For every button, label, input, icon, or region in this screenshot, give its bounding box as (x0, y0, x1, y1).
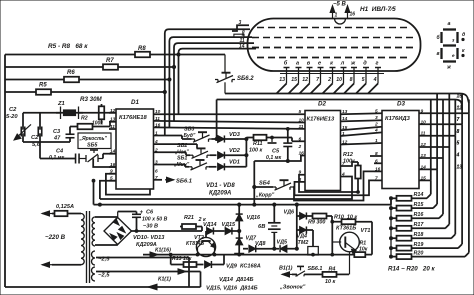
label heater winding 2 (98, 273, 110, 279)
svg-text:5: 5 (457, 141, 460, 147)
svg-text:R3 30М: R3 30М (80, 96, 103, 103)
wire D1 pin4 to SB2 T (197, 147, 201, 149)
resistor R1 10k (354, 241, 367, 258)
fuse FU1 0.125A (55, 204, 82, 216)
svg-text:1: 1 (335, 13, 338, 19)
label box Yarkost SB5 (78, 133, 111, 149)
wire R9 right (327, 216, 333, 222)
svg-text:SБ3: SБ3 (184, 127, 194, 133)
wire R12 top to D2 pin7 (341, 162, 359, 166)
wire D1 pin16 to D2 pin11 (154, 127, 306, 128)
tube left pin numbers (239, 20, 246, 50)
svg-text:е: е (318, 61, 321, 67)
diode VD2 (218, 148, 241, 159)
capacitor C3 47 (53, 127, 75, 143)
segment bus pin numbers (456, 94, 463, 171)
label heater winding 1 (98, 257, 110, 263)
svg-text:VД5: VД5 (277, 240, 288, 246)
switch SB5 contacts (79, 150, 103, 162)
IC D3 right pin numbers (421, 108, 427, 181)
svg-text:R2: R2 (81, 116, 88, 122)
svg-text:100 x 50 В: 100 x 50 В (142, 217, 168, 223)
label Z1 (57, 101, 65, 107)
wire R14-R20 left bus (390, 197, 397, 258)
wire riser tube pin 8 / R5 / D1 pin 1 (165, 29, 250, 135)
wire R11 to D2 pin6 (292, 138, 305, 142)
wire SB5 loop to D1 pin 16 (93, 159, 116, 168)
label D3 (397, 101, 405, 108)
wire D2 pin1 to D3 pin4 (341, 132, 383, 136)
svg-text:VД6: VД6 (284, 210, 295, 216)
svg-text:VД4: VД4 (297, 234, 308, 240)
tube bottom pins (284, 68, 382, 84)
tube segment letters (284, 60, 379, 67)
wire D1 pin4 row (154, 144, 202, 148)
wire D1 pin2 to SB2 (154, 152, 191, 155)
svg-text:КТ361Б: КТ361Б (336, 225, 356, 231)
svg-text:R15: R15 (414, 202, 425, 208)
svg-text:R5 - R8 68 к: R5 - R8 68 к (48, 43, 88, 50)
wire band upper (225, 94, 469, 104)
svg-text:R6: R6 (67, 70, 75, 76)
tube grid dashed line 4 (257, 57, 411, 59)
wire VD7 bottom bar (234, 253, 244, 255)
bridge rectifier VD10-VD13 (104, 218, 132, 245)
svg-text:−30 В: −30 В (143, 224, 158, 230)
svg-text:0,1 мк: 0,1 мк (49, 155, 64, 161)
wire SB6.2 riser to VD3 row (215, 100, 218, 141)
IC D1 right pin numbers (154, 109, 161, 181)
svg-text:5: 5 (299, 109, 302, 115)
svg-text:1: 1 (375, 138, 378, 144)
resistor R11 100k (246, 135, 292, 154)
wire VD8 to GB (256, 247, 279, 250)
svg-text:12: 12 (457, 105, 463, 111)
svg-text:К1(1): К1(1) (158, 277, 171, 283)
svg-text:SБ5: SБ5 (87, 143, 98, 149)
wire D3 outputs to segment bus (419, 113, 469, 180)
wire SB3 to VD3 (212, 138, 217, 140)
wire continuation arrow on bottom border (148, 284, 157, 290)
label R14-R20 value (388, 266, 436, 273)
diode VD15 (222, 222, 236, 235)
wire bottom row left (243, 248, 248, 250)
wire band lower (217, 100, 463, 111)
svg-text:5: 5 (362, 77, 365, 83)
svg-text:R19: R19 (414, 242, 424, 248)
wire D2 pin9 to R12 bottom (299, 175, 359, 194)
svg-text:4: 4 (374, 127, 378, 133)
IC D1 K176IE18 box (116, 109, 154, 189)
svg-text:R10 10 к: R10 10 к (334, 215, 357, 221)
diode VD3 (218, 132, 241, 143)
svg-text:VD2: VD2 (229, 148, 241, 154)
svg-text:16: 16 (350, 12, 356, 18)
svg-text:С3: С3 (53, 129, 61, 135)
svg-text:R14: R14 (414, 192, 424, 198)
resistor R6 (64, 70, 79, 82)
tube H1 IVL-7/5 envelope (248, 19, 421, 72)
label SB6.2 (237, 76, 254, 82)
label -30V (143, 224, 158, 230)
svg-text:SБ1: SБ1 (177, 156, 187, 162)
svg-text:в: в (437, 51, 440, 57)
svg-text:11: 11 (299, 124, 304, 130)
resistor R7 (103, 58, 118, 70)
svg-text:Н1 ИВЛ-7∕5: Н1 ИВЛ-7∕5 (360, 6, 396, 13)
wire D2 pin8 loop (295, 180, 375, 195)
label D1 (131, 99, 139, 106)
svg-text:R9 300: R9 300 (308, 220, 325, 226)
diode VD14 (203, 222, 217, 235)
label R3 30M (80, 96, 103, 103)
svg-text:R16: R16 (414, 212, 425, 218)
wire C5 to D2 pin16 (254, 156, 305, 162)
svg-text:6: 6 (299, 136, 302, 142)
wire grid-pin diagonals left group (277, 84, 344, 94)
svg-text:8: 8 (350, 77, 353, 83)
IC D1 left pins (109, 108, 116, 182)
transformer T1 secondary heater1 (92, 251, 95, 265)
svg-text:10к: 10к (359, 247, 368, 253)
svg-text:5,6: 5,6 (32, 142, 41, 148)
wire D1 pin 9 loop (106, 174, 150, 195)
switch SB2 (174, 143, 210, 158)
tube pin numbers (279, 77, 376, 83)
resistors R14-R20 (397, 192, 425, 259)
IC D3 lower left pin stubs (374, 156, 382, 180)
wire SB2 to VD2 (210, 154, 217, 156)
svg-text:г: г (376, 61, 379, 67)
svg-text:VD10- VD13: VD10- VD13 (133, 235, 165, 241)
svg-text:С2: С2 (31, 135, 39, 141)
svg-text:14: 14 (239, 44, 245, 50)
wire VD1-VD3 common bus (225, 138, 248, 167)
wire VD15 to junction (233, 229, 241, 232)
svg-text:VД16: VД16 (247, 215, 261, 221)
svg-text:КД209А: КД209А (209, 191, 231, 197)
wire D2 pin14 to D3 pin3 (341, 120, 383, 121)
resistor R9 300 (307, 214, 327, 226)
tube grid dashed line 2 (252, 37, 416, 39)
label VD10-VD13 (133, 235, 165, 248)
transformer T1 primary (81, 214, 84, 265)
capacitor C4 0.1mk (40, 149, 79, 164)
svg-text:10: 10 (336, 77, 342, 83)
wire SB1 to VD1 (209, 166, 217, 168)
resistor R10 10k (331, 215, 357, 225)
svg-text:SБ4: SБ4 (259, 181, 271, 187)
label D1 type (119, 115, 147, 121)
svg-text:VD1 - VD8: VD1 - VD8 (206, 183, 235, 189)
wire segment-pin diagonals right group (344, 84, 378, 94)
resistor R8 (135, 46, 150, 57)
svg-text:R8: R8 (138, 46, 146, 52)
wire R21 to VT2 (175, 227, 206, 239)
wire R7 row (5, 66, 174, 68)
svg-text:В1(1): В1(1) (279, 266, 293, 272)
svg-text:С5: С5 (272, 149, 280, 155)
transistor VT1 KT361B (340, 232, 360, 274)
wire SB5 to D1 pin 14 (103, 154, 116, 159)
switch SB4 (255, 180, 293, 198)
wire VD5 to node (286, 247, 298, 250)
svg-text:VD1: VD1 (229, 160, 240, 166)
frame left border (4, 55, 6, 288)
wire R10 to R1 riser (356, 221, 373, 223)
wire heater2 row (96, 269, 201, 287)
wire riser tube pin 11 / R7 / D1 pin 11 (174, 43, 254, 121)
svg-text:КТ814Б: КТ814Б (186, 241, 205, 247)
wire D1 pin10 to D2 pin5 (154, 113, 306, 115)
svg-text:е: е (452, 53, 455, 58)
resistor R21 2k (180, 215, 206, 229)
svg-text:„Корр”: „Корр” (255, 193, 275, 199)
svg-text:VД9 КС168А: VД9 КС168А (226, 264, 261, 270)
label D3 type (385, 116, 411, 122)
wire D1 pin11 to D2 pin10 (154, 121, 306, 123)
IC D2 K176IE13 box (305, 111, 341, 191)
svg-text:13: 13 (279, 77, 285, 83)
wire D2 pin12 to D3 pin1 (341, 143, 383, 145)
wire D1 pin7 stub (154, 179, 163, 181)
svg-text:9: 9 (242, 32, 245, 37)
svg-text:б: б (284, 60, 288, 67)
node R8 riser junction (177, 53, 180, 56)
svg-text:R7: R7 (106, 58, 114, 64)
svg-text:R4: R4 (329, 266, 336, 272)
svg-text:10 к: 10 к (325, 279, 335, 285)
svg-text:С6: С6 (146, 210, 154, 216)
svg-text:К176ИЕ18: К176ИЕ18 (119, 115, 147, 121)
capacitor plate T (268, 136, 277, 143)
svg-text:10: 10 (299, 118, 305, 124)
wire K1(16) rail (143, 248, 372, 258)
wire D3 pin8 stub (370, 150, 374, 156)
wire tube pin 3 stub (232, 25, 249, 31)
svg-text:ж: ж (350, 61, 356, 67)
diode VD7 (236, 236, 257, 245)
node R7 riser junction (172, 65, 175, 68)
transformer T1 secondary heater2 (92, 267, 95, 281)
svg-text:ТМ2: ТМ2 (298, 240, 309, 246)
tube grid dashed line 3 (252, 47, 416, 49)
label B1(1) (279, 266, 293, 272)
wire heater1 row (96, 258, 189, 288)
svg-text:КД209А: КД209А (136, 242, 157, 248)
label VD15 type (206, 286, 258, 292)
svg-text:SБ6.2: SБ6.2 (237, 76, 254, 82)
wire VD6 branch (295, 203, 298, 249)
svg-text:8: 8 (457, 129, 460, 135)
svg-text:0,1 мк: 0,1 мк (266, 155, 281, 161)
capacitor C5 0.1mk (266, 127, 292, 162)
svg-text:R14 − R20 20 к: R14 − R20 20 к (388, 266, 436, 273)
wire segment bus verticals up (431, 94, 469, 181)
wire mains upper (42, 211, 54, 216)
wire -30V rail (135, 230, 202, 233)
label VT1 (336, 225, 370, 234)
svg-text:7: 7 (457, 117, 460, 123)
wire power rail upper (100, 198, 221, 200)
diode VD4 (297, 226, 314, 246)
wire SB4 right loop (293, 171, 374, 200)
wire VD16 chain (238, 203, 241, 254)
switch SB6.2 (215, 55, 235, 94)
buzzer TM2 box (308, 247, 319, 256)
IC D3 left pin numbers (374, 108, 381, 181)
wire R8 row (5, 54, 225, 56)
svg-text:Z1: Z1 (57, 101, 65, 107)
node R5 riser junction (163, 90, 166, 93)
svg-text:„Буд”: „Буд” (180, 133, 196, 139)
diode VD1 (218, 160, 240, 171)
svg-text:VД15: VД15 (222, 222, 236, 228)
wire oscillator bottom rail (23, 141, 70, 143)
diode VD6 (284, 210, 307, 220)
wire R6 row (5, 79, 169, 81)
seven-segment legend (437, 21, 466, 71)
tube grid dashed line 1 (257, 27, 411, 29)
svg-text:−5 В: −5 В (333, 2, 347, 8)
svg-text:К176ИЕ13: К176ИЕ13 (307, 117, 335, 123)
wire SB4 left (253, 185, 273, 188)
svg-text:D2: D2 (318, 101, 326, 108)
label C1 (6, 107, 18, 120)
svg-text:SБ6.1: SБ6.1 (176, 179, 192, 185)
svg-text:D3: D3 (397, 101, 405, 108)
svg-text:SБ6.1: SБ6.1 (308, 266, 323, 272)
wire VT1 base riser (331, 222, 341, 256)
svg-text:~2,5: ~2,5 (98, 273, 110, 279)
svg-text:R5: R5 (39, 83, 47, 89)
arrow to SB6.1 (165, 177, 192, 184)
svg-text:15: 15 (291, 77, 297, 83)
wire secondary to bridge top (95, 216, 118, 218)
IC D2 left pin numbers (298, 109, 305, 183)
label VD1-VD8 (206, 183, 235, 197)
svg-text:VD3: VD3 (229, 132, 241, 138)
svg-text:15: 15 (457, 94, 463, 100)
svg-text:100 к: 100 к (249, 148, 262, 154)
resistor R3 30M (99, 104, 116, 124)
wire D2 pin15 to D3 pin2 (341, 127, 383, 131)
svg-text:3: 3 (239, 20, 242, 26)
svg-text:R12: R12 (343, 152, 353, 158)
wire R5 row (5, 91, 165, 93)
label R5-R8 value (48, 43, 88, 50)
resistor R4 10k (309, 266, 349, 285)
svg-text:R21: R21 (184, 215, 194, 221)
svg-text:„Мин”: „Мин” (173, 162, 190, 168)
svg-text:6В: 6В (258, 224, 265, 230)
wire D2 pin13 to D3 pin5 (341, 112, 383, 115)
svg-text:2: 2 (374, 122, 378, 128)
svg-text:4: 4 (373, 77, 377, 83)
svg-text:а: а (448, 21, 451, 27)
svg-text:2: 2 (298, 144, 302, 150)
svg-text:VД15, VД16 Д814Б: VД15, VД16 Д814Б (206, 286, 258, 292)
svg-text:К1(16): К1(16) (155, 248, 171, 254)
label D2 (318, 101, 326, 108)
svg-text:~220 В: ~220 В (45, 234, 66, 241)
label Zvonok (279, 285, 306, 291)
svg-text:2: 2 (327, 77, 331, 83)
svg-text:К176ИД3: К176ИД3 (385, 116, 411, 122)
IC D2 right pin numbers (341, 109, 348, 177)
transformer T1 secondary upper (92, 217, 95, 246)
label VT2 (186, 235, 205, 247)
resistor R2 100k (70, 116, 116, 130)
node R6 riser junction (168, 78, 171, 81)
diode VD9 (205, 255, 261, 270)
label VD14 type (219, 277, 253, 283)
svg-text:0,125А: 0,125А (56, 204, 74, 210)
battery GB 6V (258, 203, 281, 249)
quartz crystal Z1 (56, 107, 83, 120)
svg-text:2 к: 2 к (198, 217, 206, 223)
switch SB6.1 bell (292, 266, 322, 276)
svg-text:С2: С2 (9, 107, 17, 113)
wire secondary to bridge bottom (95, 244, 118, 246)
svg-text:R18: R18 (414, 232, 424, 238)
wire R21 branch (202, 227, 203, 232)
wire pin 9 jog (234, 34, 244, 37)
wire riser tube pin 9 / R6 / D1 pin 16 (169, 37, 252, 127)
transistor VT2 KT814 (196, 237, 215, 256)
svg-text:SБ2: SБ2 (177, 143, 187, 149)
wire riser tube pin 14 / R8 / D1 pin 10 (179, 49, 257, 115)
wire D1 pin 5 loop (92, 179, 116, 204)
svg-text:ж: ж (446, 65, 451, 71)
wire bell arrow (282, 272, 292, 277)
svg-text:5: 5 (375, 108, 378, 114)
svg-text:„Звонок”: „Звонок” (279, 285, 306, 291)
label 220V (45, 234, 66, 241)
svg-text:д: д (363, 61, 367, 67)
diode VD16 (236, 214, 261, 221)
capacitor C6 100x50V (118, 210, 168, 232)
wire D1 pin3 to SB1 (154, 165, 190, 167)
tube filament pins 1 and 16 with -5V (330, 2, 355, 25)
svg-text:12: 12 (302, 77, 308, 83)
wire D2 bottom loop (221, 177, 352, 200)
svg-text:R17: R17 (414, 222, 425, 228)
IC D3 K176ID3 box (382, 111, 419, 189)
resistor R12 100k (343, 152, 361, 192)
svg-text:С4: С4 (56, 149, 64, 155)
diode VD5 (277, 240, 288, 253)
wire VD14-15 segment (214, 230, 225, 232)
svg-text:а: а (296, 61, 299, 67)
switch SB1 (173, 156, 209, 171)
svg-text:47: 47 (53, 136, 61, 142)
wire R14-R20 right connections (412, 198, 466, 256)
frame bottom border (5, 286, 201, 288)
svg-text:VД14 Д814Б: VД14 Д814Б (219, 277, 253, 283)
label C2 (31, 135, 41, 148)
wire oscillator top rail (23, 112, 116, 114)
diode VD8 (249, 241, 266, 252)
switch SB3 (180, 127, 212, 143)
svg-text:VT1: VT1 (361, 228, 371, 234)
svg-text:R20: R20 (414, 250, 424, 256)
label D2 type (307, 117, 335, 123)
svg-text:D1: D1 (131, 99, 139, 106)
label H1 IVL-7/5 (360, 6, 396, 13)
svg-text:д: д (462, 32, 465, 38)
resistor R13 10k (171, 255, 204, 267)
